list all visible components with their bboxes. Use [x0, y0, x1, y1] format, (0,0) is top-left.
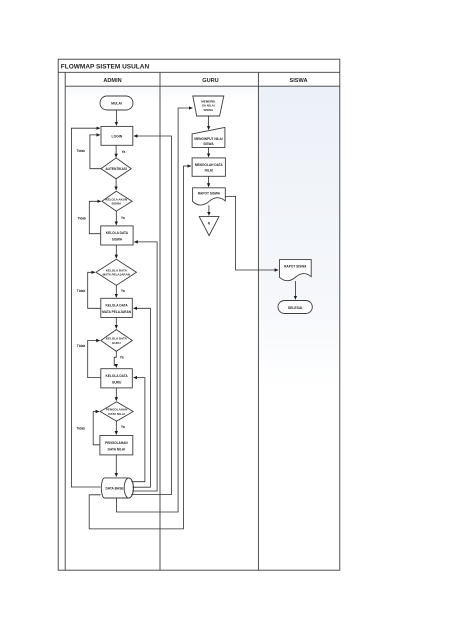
arrow to SELESAI: [294, 281, 296, 299]
svg-text:KELOLA DATA: KELOLA DATA: [105, 304, 128, 308]
label Ya (login): [122, 150, 126, 154]
svg-text:GURU: GURU: [112, 380, 122, 384]
manual input MENGINPUT NILAI SISWA: [192, 127, 225, 147]
arrow document to off-page connector: [208, 205, 210, 215]
title row separator: [58, 71, 340, 73]
svg-text:RAPOT SISWA: RAPOT SISWA: [198, 191, 221, 195]
wire database to LOGIN left: [71, 128, 100, 487]
table outer frame: [58, 59, 340, 570]
arrow to MENGOLAH DATA NILAI: [208, 147, 210, 157]
svg-text:SISWA: SISWA: [112, 237, 123, 241]
wire kelola data siswa loop to decision: [89, 201, 101, 233]
process KELOLA DATA SISWA: [101, 226, 133, 245]
svg-text:LOGIN: LOGIN: [112, 135, 123, 139]
label Ya (pengolahan): [121, 425, 125, 429]
svg-text:SISWA: SISWA: [203, 108, 214, 112]
svg-text:SISWA: SISWA: [203, 142, 214, 146]
label Tidak (pengolahan): [77, 427, 86, 431]
process MENGOLAH DATA NILAI: [192, 158, 225, 176]
document RAPOT SISWA (siswa): [280, 260, 312, 281]
wire decision to KELOLA DATA GURU with jog: [114, 351, 116, 367]
svg-text:MENGINPUT NILAI: MENGINPUT NILAI: [194, 137, 222, 141]
document RAPOT SISWA (guru): [193, 188, 226, 205]
svg-text:SELESAI: SELESAI: [288, 306, 303, 310]
arrow to decision pengolahan data nilai: [115, 388, 117, 401]
process LOGIN: [101, 126, 133, 145]
arrow LOGIN to AUTENTIKASI: [115, 145, 117, 157]
svg-text:PENGOLAHAN: PENGOLAHAN: [105, 441, 128, 445]
svg-text:NILAI: NILAI: [205, 169, 213, 173]
wire database to KELOLA DATA SISWA right: [132, 242, 157, 491]
arrow to decision kelola data guru: [115, 318, 117, 329]
arrow KELOLA DATA SISWA to decision mata pelajaran: [115, 245, 117, 258]
decision PENGOLAHAN DATA NILAI: [100, 402, 133, 421]
arrow PENGOLAHAN DATA NILAI to database: [115, 455, 117, 477]
svg-text:SISWA: SISWA: [111, 202, 122, 206]
arrow AUTENTIKASI to decision kelola akun: [115, 179, 117, 190]
svg-text:MENGOLAH DATA: MENGOLAH DATA: [195, 163, 224, 167]
label Tidak (mata pelajaran): [77, 289, 86, 293]
svg-text:Tidak: Tidak: [78, 217, 87, 221]
admin/guru top tinted band: [65, 86, 258, 100]
header SISWA: [289, 78, 307, 84]
terminator MULAI: [100, 96, 133, 110]
label Ya (kelola guru): [120, 355, 124, 359]
svg-text:MATA PELAJARAN: MATA PELAJARAN: [103, 273, 130, 277]
wire kelola data mata pelajaran loop to decision: [88, 272, 101, 308]
terminator SELESAI: [278, 301, 312, 314]
arrow decision to KELOLA DATA SISWA: [115, 211, 117, 225]
label Tidak (kelola akun): [78, 217, 87, 221]
wire autentikasi tidak loop to LOGIN left: [90, 135, 101, 169]
svg-text:AUTENTIKASI: AUTENTIKASI: [105, 167, 127, 171]
siswa column tinted background: [258, 86, 339, 386]
svg-text:Ya: Ya: [121, 216, 125, 220]
svg-text:MATA PELAJARAN: MATA PELAJARAN: [102, 310, 132, 314]
label Tidak (kelola guru): [77, 344, 86, 348]
svg-text:DATA NILAI: DATA NILAI: [108, 447, 126, 451]
svg-text:DATA NILAI: DATA NILAI: [108, 412, 125, 416]
header GURU: [202, 78, 218, 84]
svg-text:RAPOT SISWA: RAPOT SISWA: [284, 264, 307, 268]
label Ya (kelola akun): [121, 216, 125, 220]
svg-text:Tidak: Tidak: [77, 344, 86, 348]
arrow decision to KELOLA DATA MATA PELAJARAN: [115, 285, 117, 297]
arrow to RAPOT SISWA document: [208, 176, 210, 186]
arrow decision to PENGOLAHAN DATA NILAI: [115, 421, 117, 434]
left narrow strip divider: [64, 72, 66, 570]
database DATA BASE cylinder: [101, 478, 133, 498]
svg-text:Tidak: Tidak: [77, 427, 86, 431]
process KELOLA DATA MATA PELAJARAN: [101, 298, 133, 317]
header row separator: [65, 85, 340, 87]
decision KELOLA DATA GURU: [101, 330, 133, 352]
process KELOLA DATA GURU: [101, 369, 133, 388]
svg-text:KELOLA DATA: KELOLA DATA: [105, 374, 128, 378]
svg-text:Tidak: Tidak: [77, 149, 86, 153]
svg-text:Ya: Ya: [121, 425, 125, 429]
svg-text:MULAI: MULAI: [111, 102, 122, 106]
process PENGOLAHAN DATA NILAI: [100, 436, 133, 455]
decision KELOLA AKUN SISWA: [102, 191, 132, 211]
wire database to KELOLA DATA MATA PELAJARAN right: [133, 308, 151, 487]
wire RAPOT SISWA guru to RAPOT SISWA siswa: [225, 196, 278, 270]
off-page connector N triangle: [199, 217, 219, 236]
wire pengolahan data nilai loop to decision: [93, 412, 100, 445]
manual operation MEMERIKSA NILAI SISWA: [193, 96, 224, 116]
admin/guru column separator: [159, 72, 161, 570]
wire database to LOGIN right: [131, 136, 171, 495]
header ADMIN: [103, 78, 121, 84]
wire database to MENGOLAH DATA NILAI left (bottom loop): [89, 166, 191, 529]
arrow to MENGINPUT NILAI SISWA: [208, 116, 210, 130]
svg-text:Ya: Ya: [120, 355, 124, 359]
title: FLOWMAP SISTEM USULAN: [61, 63, 150, 70]
svg-text:Tidak: Tidak: [77, 289, 86, 293]
label Tidak (autentikasi): [77, 149, 86, 153]
svg-text:SISWA: SISWA: [289, 78, 307, 84]
svg-text:GURU: GURU: [112, 341, 121, 345]
wire kelola data guru loop to decision: [88, 341, 101, 378]
svg-text:KELOLA DATA: KELOLA DATA: [106, 231, 129, 235]
svg-text:FLOWMAP SISTEM USULAN: FLOWMAP SISTEM USULAN: [61, 63, 150, 70]
svg-text:GURU: GURU: [202, 78, 218, 84]
arrow MULAI to LOGIN: [115, 110, 117, 125]
svg-text:Ya: Ya: [121, 289, 125, 293]
svg-text:ADMIN: ADMIN: [103, 78, 121, 84]
wire database to MEMERIKSA NILAI SISWA left (bottom loop): [117, 108, 193, 512]
wire database to KELOLA DATA GURU right: [132, 378, 145, 482]
svg-text:Ya: Ya: [122, 150, 126, 154]
svg-text:DATA BASE: DATA BASE: [105, 487, 123, 491]
decision KELOLA DATA MATA PELAJARAN: [96, 259, 136, 285]
decision AUTENTIKASI: [101, 158, 131, 179]
guru/siswa column separator: [257, 72, 259, 570]
label Ya (mata pelajaran): [121, 289, 125, 293]
